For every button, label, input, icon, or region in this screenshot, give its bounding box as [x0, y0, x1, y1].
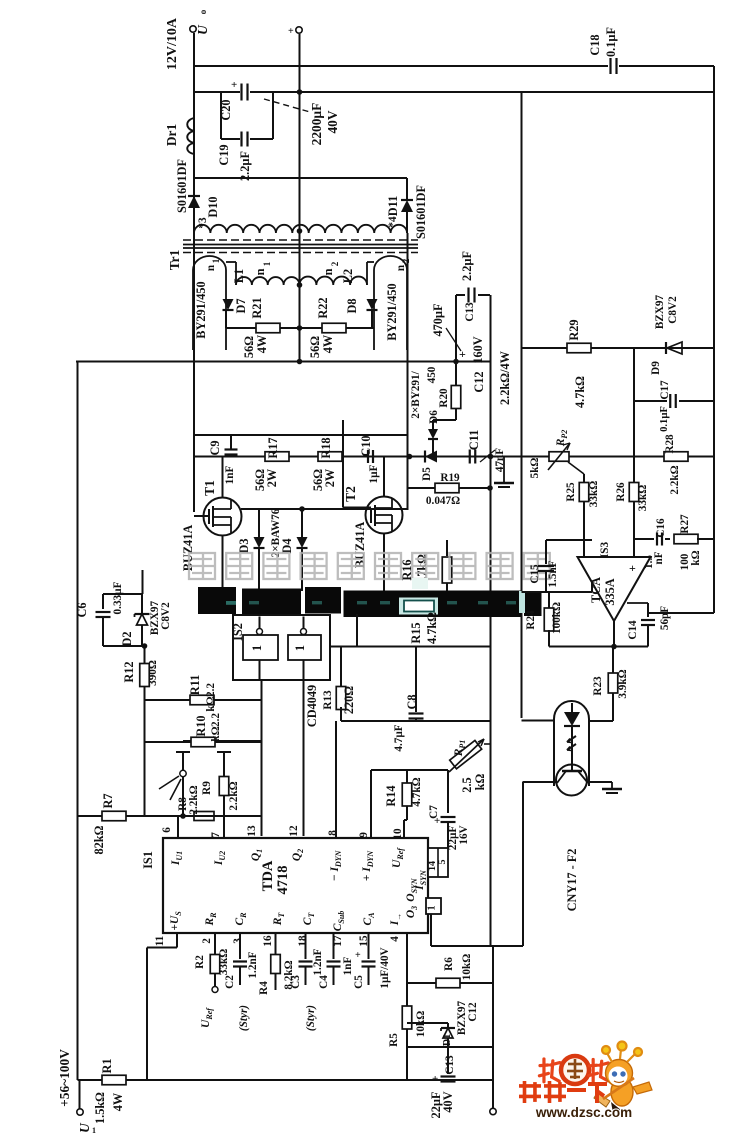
svg-text:1: 1	[427, 905, 438, 910]
svg-text:C11: C11	[467, 430, 481, 451]
svg-text:R6: R6	[443, 957, 455, 971]
wire: pin 9 stub	[370, 770, 372, 838]
svg-text:220Ω: 220Ω	[342, 686, 356, 714]
optocoupler light arrows	[567, 736, 576, 742]
svg-text:R12: R12	[122, 661, 136, 682]
wire: photo emitter to ground	[587, 781, 612, 783]
resistor R14 4.7kohm	[406, 770, 408, 783]
resistor R5 10kohm	[402, 1006, 412, 1029]
wire: T2 gate from driver	[342, 420, 344, 508]
resistor R27 100kohm	[674, 534, 698, 544]
node: junction + rail	[297, 89, 303, 95]
svg-text:390Ω: 390Ω	[147, 660, 159, 686]
svg-text:IS1: IS1	[141, 851, 155, 869]
terminal Uo 12V/10A output	[190, 26, 196, 32]
svg-text:C9: C9	[208, 440, 222, 455]
transformer Tr1 primary winding left half	[236, 277, 300, 285]
svg-text:C13: C13	[444, 1055, 456, 1075]
svg-text:1µF: 1µF	[368, 464, 380, 483]
svg-text:D6: D6	[428, 410, 440, 424]
svg-text:R21: R21	[250, 297, 264, 318]
svg-text:R18: R18	[319, 437, 333, 458]
wire: regulation rail right	[491, 456, 715, 458]
diode D11 S01601DF secondary rectifier	[406, 178, 408, 200]
svg-text:R22: R22	[316, 297, 330, 318]
svg-text:33kΩ: 33kΩ	[218, 949, 230, 975]
svg-text:D11: D11	[386, 196, 400, 217]
svg-text:TDA: TDA	[260, 860, 276, 891]
capacitor C12 470uF 160V branch	[455, 295, 457, 362]
svg-text:C8V2: C8V2	[160, 602, 172, 630]
ground near C11	[503, 457, 505, 484]
resistor R1 1.5kohm 4W	[102, 1075, 126, 1085]
svg-text:0.1µF: 0.1µF	[659, 406, 670, 432]
capacitor C16 1.5nF	[634, 538, 654, 540]
wire: pin 6 stub	[177, 816, 179, 838]
svg-text:U: U	[195, 24, 210, 35]
wire: pin 8 stub	[335, 721, 337, 838]
svg-text:C3: C3	[290, 975, 302, 989]
svg-text:R17: R17	[266, 437, 280, 458]
resistor R21 56ohm 4W	[226, 327, 300, 329]
svg-text:2: 2	[401, 258, 411, 263]
svg-text:C10: C10	[359, 435, 373, 456]
svg-text:S01601DF: S01601DF	[414, 185, 428, 239]
wire: lower drive rail	[341, 720, 491, 722]
svg-text:1nF: 1nF	[342, 957, 354, 976]
svg-text:1: 1	[250, 645, 264, 651]
resistor R25 33kohm	[579, 483, 589, 502]
wire: gate drive rail lower	[194, 456, 490, 458]
svg-text:BY291/450: BY291/450	[385, 283, 399, 340]
node: sense rail junctions	[488, 454, 494, 460]
svg-text:2.2: 2.2	[210, 713, 222, 727]
svg-text:Tr1: Tr1	[167, 250, 182, 271]
svg-text:R2: R2	[194, 955, 206, 969]
svg-text:1: 1	[211, 258, 221, 263]
resistor R26 33kohm	[633, 457, 635, 484]
svg-text:2W: 2W	[323, 468, 337, 487]
wire: feedback from border	[648, 612, 714, 614]
svg-text:+: +	[288, 26, 294, 37]
svg-text:BZX97: BZX97	[654, 295, 666, 330]
svg-text:o: o	[198, 9, 208, 14]
svg-text:1nF: 1nF	[224, 466, 236, 485]
svg-text:IS3: IS3	[599, 542, 611, 559]
resistor R28 2.2kohm	[664, 452, 688, 462]
svg-text:40V: 40V	[441, 1091, 455, 1112]
svg-text:C6: C6	[75, 602, 89, 617]
svg-text:C8V2: C8V2	[667, 296, 679, 324]
svg-text:3: 3	[232, 938, 244, 944]
svg-text:RP2: RP2	[555, 430, 569, 448]
capacitor C19 2.2uF	[240, 132, 242, 147]
node: secondary center tap	[297, 228, 303, 234]
capacitor C14 56pF	[647, 603, 649, 617]
wire: second output rail	[194, 91, 240, 93]
svg-text:2.2µF: 2.2µF	[238, 151, 252, 181]
svg-text:13: 13	[246, 825, 258, 837]
diode D4	[299, 506, 305, 512]
svg-text:R23: R23	[592, 676, 604, 696]
svg-text:D4: D4	[280, 538, 294, 553]
potentiometer Rp2 5kohm	[549, 452, 569, 462]
svg-text:18: 18	[297, 935, 309, 947]
svg-text:4W: 4W	[111, 1092, 125, 1111]
svg-text:C15: C15	[529, 564, 541, 584]
svg-text:40V: 40V	[325, 110, 340, 133]
terminal U1 input	[79, 1080, 81, 1109]
svg-text:4: 4	[389, 936, 401, 942]
capacitor C18 0.1uF on top rail	[609, 58, 611, 74]
wire: right border vertical	[713, 66, 715, 613]
svg-text:12: 12	[288, 825, 300, 837]
wire: D2 feed from above	[142, 570, 144, 594]
MOSFET T1 BUZ41A	[204, 498, 242, 536]
inductor Dr1 filter choke	[193, 0, 195, 1]
inverter gate 1	[243, 635, 278, 660]
capacitor C11 47nF	[469, 450, 471, 464]
resistor R17 56ohm 2W	[265, 452, 289, 462]
svg-text:6: 6	[161, 827, 173, 833]
svg-text:+: +	[629, 561, 636, 575]
wire: LED return	[589, 720, 613, 722]
svg-text:R25: R25	[565, 482, 577, 502]
svg-text:R7: R7	[101, 793, 115, 808]
svg-text:R10: R10	[194, 715, 208, 736]
svg-text:2: 2	[201, 938, 213, 944]
node: D2/R12 junction	[142, 643, 148, 649]
svg-text:S01601DF: S01601DF	[175, 159, 189, 213]
svg-text:D10: D10	[206, 196, 220, 217]
svg-text:16: 16	[262, 935, 274, 947]
logo mascot	[539, 1042, 652, 1114]
svg-text:R11: R11	[188, 675, 202, 696]
svg-text:100kΩ: 100kΩ	[551, 602, 563, 634]
svg-text:C4: C4	[318, 975, 330, 989]
potentiometer Rp1 2.5kohm	[450, 740, 482, 768]
resistor R4 8.2kohm	[275, 933, 277, 955]
svg-text:2.2kΩ: 2.2kΩ	[188, 785, 200, 814]
svg-text:U: U	[77, 1122, 92, 1133]
diode D5	[424, 451, 426, 463]
wire: photo collector	[523, 781, 556, 783]
svg-text:C19: C19	[217, 144, 231, 165]
svg-text:2.2kΩ/4W: 2.2kΩ/4W	[498, 350, 512, 405]
wire: pin9 feed rail	[371, 769, 448, 771]
node: R19 right	[487, 485, 493, 491]
capacitor C13 2.2uF	[467, 288, 469, 303]
svg-text:R15: R15	[409, 622, 423, 643]
svg-text:kΩ: kΩ	[205, 696, 217, 711]
MOSFET T2 BUZ41A	[366, 497, 403, 534]
resistor R2 33kohm	[214, 933, 216, 955]
svg-text:C12: C12	[472, 371, 486, 392]
svg-text:D5: D5	[421, 467, 433, 481]
svg-text:2: 2	[330, 261, 340, 266]
wire: C19 parallel branch	[220, 92, 222, 139]
teal highlighted resistor R15 4.7kohm in bar	[399, 598, 438, 615]
wire: pin 4 column	[406, 933, 408, 1006]
svg-text:n: n	[321, 268, 335, 275]
IC IS2 driver box CD4049	[233, 615, 330, 680]
svg-text:n: n	[395, 264, 407, 271]
svg-text:8: 8	[327, 830, 339, 836]
svg-text:R9: R9	[201, 781, 213, 795]
optocoupler phototransistor	[571, 726, 573, 771]
svg-text:1.2nF: 1.2nF	[312, 948, 324, 975]
capacitor C13b 22uF 40V polarized	[447, 1047, 449, 1074]
svg-text:10kΩ: 10kΩ	[461, 954, 473, 980]
svg-text:335A: 335A	[603, 578, 617, 605]
svg-text:0.047Ω: 0.047Ω	[426, 495, 460, 507]
svg-text:4.7kΩ: 4.7kΩ	[573, 376, 587, 408]
svg-text:12V/10A: 12V/10A	[165, 17, 180, 70]
transformer Tr1 core	[183, 239, 418, 241]
svg-text:L1: L1	[232, 269, 246, 283]
wire: bar to drive rail stub	[356, 614, 358, 647]
svg-text:T1: T1	[202, 480, 217, 496]
svg-text:CD4049: CD4049	[305, 685, 319, 727]
svg-text:2.2: 2.2	[205, 683, 217, 697]
wire: inverting input line	[522, 591, 593, 593]
svg-text:11: 11	[154, 935, 166, 946]
wire: right primary branch vertical	[407, 233, 409, 510]
wire: reference rail	[522, 347, 715, 349]
wire: Rp2 to R25	[568, 462, 584, 474]
resistor R23 3.9kohm	[612, 647, 614, 674]
svg-text:2.2kΩ: 2.2kΩ	[669, 465, 681, 494]
capacitor C10 1uF	[367, 450, 369, 463]
wire: T2 drain stub	[383, 457, 385, 497]
svg-text:+: +	[459, 347, 466, 361]
svg-text:56pF: 56pF	[659, 606, 671, 630]
resistor R19 0.047ohm	[408, 487, 491, 489]
svg-text:C7: C7	[428, 805, 440, 819]
wire: divider vertical	[633, 348, 635, 539]
pin box 1	[426, 898, 441, 914]
resistor R22 56ohm 4W	[300, 327, 375, 329]
svg-text:9: 9	[358, 832, 370, 838]
svg-text:1.5nF: 1.5nF	[547, 560, 559, 587]
svg-text:C18: C18	[588, 34, 602, 55]
capacitor C20 2200uF 40V polarized	[240, 84, 242, 101]
svg-text:1: 1	[92, 1126, 96, 1135]
svg-text:2W: 2W	[265, 468, 279, 487]
node: snubber center	[297, 325, 303, 331]
wire: op-amp output	[613, 621, 615, 647]
capacitor C8 4.7uF	[415, 647, 417, 713]
svg-text:nF: nF	[653, 551, 665, 564]
svg-text:5kΩ: 5kΩ	[529, 458, 541, 479]
wire: T1 drain to rail	[222, 457, 224, 498]
resistor R13 220ohm	[330, 646, 491, 648]
capacitor C6 0.33uF	[103, 593, 142, 595]
diode D6	[433, 419, 456, 421]
svg-text:(Styr): (Styr)	[238, 1005, 250, 1031]
node: HV bus junctions	[297, 359, 303, 365]
resistor R18 56ohm 2W	[318, 452, 342, 462]
svg-text:R27: R27	[679, 514, 691, 534]
svg-text:1.2nF: 1.2nF	[247, 951, 259, 978]
transformer Tr1 primary winding right half	[300, 277, 368, 285]
svg-text:D1: D1	[442, 1034, 453, 1046]
svg-text:D7: D7	[234, 298, 248, 313]
svg-text:R24: R24	[525, 610, 537, 630]
svg-text:R1: R1	[100, 1058, 114, 1073]
capacitor C2 1.2nF	[239, 933, 241, 959]
svg-text:4.7µF: 4.7µF	[393, 724, 405, 751]
svg-text:0.1µF: 0.1µF	[604, 27, 618, 57]
svg-text:D8: D8	[345, 298, 359, 313]
resistor R29 4.7kohm	[567, 343, 591, 353]
wire: left border vertical (+56-100V input)	[77, 362, 79, 1081]
diode D8 snubber	[367, 299, 378, 310]
wire: right regulation vertical	[521, 92, 523, 718]
svg-text:2×BAW76: 2×BAW76	[270, 508, 282, 557]
svg-text:+56~100V: +56~100V	[57, 1049, 72, 1107]
wire: optocoupler collector drop	[522, 782, 524, 947]
svg-text:56Ω: 56Ω	[308, 336, 322, 358]
svg-text:R5: R5	[388, 1033, 400, 1047]
zener diode D1 BZX97 C12	[407, 1022, 448, 1024]
wire: non-inverting input	[633, 539, 635, 557]
wire: feedback winding loop right (stadium)	[374, 256, 407, 350]
diode D3	[258, 509, 260, 537]
svg-text:4W: 4W	[255, 334, 269, 353]
wire: lower aux rail	[407, 1046, 493, 1048]
wire: jog to R8/R9 column	[183, 740, 262, 742]
svg-text:33kΩ: 33kΩ	[637, 485, 649, 511]
svg-text:C17: C17	[659, 380, 671, 400]
resistor R16 4.7kohm	[446, 540, 448, 556]
logo text weiku red characters	[519, 1081, 541, 1103]
capacitor C7 22uF 16V polarized	[447, 770, 449, 813]
wire: common source rail	[241, 508, 408, 510]
resistor R9 2.2kohm	[217, 751, 231, 753]
capacitor C5 1uF/40V polarized	[368, 933, 370, 959]
svg-text:CNY17 - F2: CNY17 - F2	[565, 849, 579, 912]
resistor R7 82kohm	[78, 815, 262, 817]
svg-text:1.5kΩ: 1.5kΩ	[93, 1092, 107, 1124]
svg-text:2.2µF: 2.2µF	[460, 251, 474, 281]
zener diode D2 BZX97 C8V2	[141, 594, 143, 614]
resistor R20 2.2kohm/4W	[455, 362, 457, 387]
svg-text:BY291/450: BY291/450	[194, 281, 208, 338]
capacitor C17 0.1uF	[634, 400, 667, 402]
wire: HV bus rail	[76, 361, 490, 363]
svg-text:450: 450	[426, 366, 438, 383]
inverter gate 2	[288, 635, 321, 660]
capacitor C15 1.5nF	[546, 539, 592, 541]
op-amp IS3 TCA335A	[578, 557, 651, 621]
pin box 14 5	[428, 848, 448, 877]
svg-text:RP1: RP1	[453, 740, 467, 758]
svg-text:R20: R20	[438, 388, 450, 408]
svg-text:URef: URef	[200, 1007, 214, 1028]
svg-text:R13: R13	[322, 690, 334, 710]
svg-text:n: n	[253, 268, 267, 275]
svg-text:7: 7	[210, 832, 222, 838]
capacitor C4 1nF	[333, 933, 335, 959]
svg-text:n: n	[205, 264, 217, 271]
wire: T2 source down	[383, 533, 385, 591]
wire: pin1 to lower rail	[430, 914, 432, 946]
wire: gate drive rail upper	[194, 434, 408, 436]
resistor R24 100kohm	[548, 592, 550, 609]
svg-text:R26: R26	[615, 482, 627, 502]
wire: output left branch vertical	[193, 33, 195, 512]
diode D10 S01601DF secondary rectifier	[193, 152, 195, 196]
IC IS1 TDA4718 controller	[163, 838, 428, 933]
svg-text:R19: R19	[440, 472, 460, 484]
wire: feedback winding loop left (stadium)	[193, 256, 226, 350]
svg-text:0.33µF: 0.33µF	[112, 581, 124, 614]
diode D7 snubber	[223, 299, 234, 310]
svg-text:kΩ: kΩ	[690, 550, 702, 565]
svg-text:4W: 4W	[321, 334, 335, 353]
svg-text:R29: R29	[567, 319, 581, 340]
wire: pin 7 stub	[223, 816, 225, 838]
svg-text:1: 1	[262, 261, 272, 266]
svg-text:2.5: 2.5	[460, 777, 474, 792]
optocoupler CNY17-F2	[554, 701, 589, 786]
zener diode D9 BZX97 C8V2	[665, 342, 667, 354]
svg-text:R14: R14	[384, 785, 398, 806]
wire: output node rail	[549, 646, 648, 648]
watermark company text	[189, 553, 215, 579]
svg-text:1µF/40V: 1µF/40V	[379, 947, 391, 988]
svg-text:160V: 160V	[471, 336, 485, 363]
wire: center vertical from + terminal	[299, 34, 301, 362]
svg-text:R28: R28	[664, 434, 676, 454]
wire: top output rail (+12V)	[194, 65, 608, 67]
svg-text:4.7kΩ: 4.7kΩ	[411, 777, 423, 806]
svg-text:R4: R4	[258, 981, 270, 995]
wire: T1 source down	[222, 535, 224, 591]
svg-text:TCA: TCA	[589, 577, 603, 603]
svg-text:16V: 16V	[458, 825, 470, 844]
svg-text:kΩ: kΩ	[210, 726, 222, 741]
svg-text:1: 1	[293, 645, 307, 651]
svg-text:D9: D9	[650, 361, 662, 375]
optocoupler LED	[564, 712, 580, 726]
svg-text:2.2kΩ: 2.2kΩ	[228, 781, 240, 810]
trimmer R8 2.2kohm with wiper	[176, 751, 190, 753]
svg-text:(Styr): (Styr)	[305, 1005, 317, 1031]
svg-text:2200µF: 2200µF	[309, 103, 324, 146]
wire: right sense vertical	[490, 295, 492, 946]
svg-text:www.dzsc.com: www.dzsc.com	[535, 1105, 632, 1120]
svg-text:470µF: 470µF	[431, 303, 445, 336]
wire: gate2 output to pin 12	[303, 680, 305, 836]
svg-text:+: +	[355, 950, 361, 961]
resistor R11 2.2kohm	[145, 699, 262, 701]
svg-text:C16: C16	[655, 518, 667, 538]
wire: bottom ground rail	[78, 1079, 494, 1081]
svg-text:Dr1: Dr1	[164, 124, 179, 146]
svg-text:D2: D2	[120, 631, 134, 646]
terminal + output	[296, 27, 302, 33]
svg-text:33kΩ: 33kΩ	[588, 481, 600, 507]
svg-text:4.7kΩ: 4.7kΩ	[425, 612, 439, 644]
resistor R10 2.2kohm	[145, 741, 262, 743]
svg-text:3.9kΩ: 3.9kΩ	[617, 669, 629, 698]
black blob right of bar	[524, 593, 542, 616]
svg-text:10: 10	[392, 828, 404, 840]
wire: bottom rail to output terminal	[492, 946, 494, 1108]
svg-text:C8: C8	[405, 694, 419, 709]
